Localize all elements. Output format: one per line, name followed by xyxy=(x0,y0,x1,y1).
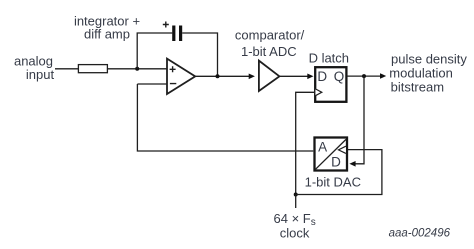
arrowhead to bitstream output xyxy=(380,73,386,79)
capacitor C1 (integrator feedback) with + polarity mark xyxy=(163,22,182,42)
svg-text:D: D xyxy=(317,69,327,84)
svg-text:D latch: D latch xyxy=(309,50,349,65)
wire: D latch Q output xyxy=(347,75,381,77)
wire: clock stub down to clock label xyxy=(295,195,297,209)
wire: feedback loop left vertical and top to capacitor xyxy=(137,33,172,69)
comparator U2 (1-bit ADC) xyxy=(259,61,280,91)
arrowhead into DAC D input (pointing left) xyxy=(349,161,355,167)
svg-text:bitstream: bitstream xyxy=(391,80,444,95)
wire: capacitor to op-amp output junction xyxy=(182,33,217,76)
node: op-amp output junction xyxy=(216,74,220,78)
wire: feedback from DAC output to inverting input xyxy=(137,84,313,151)
svg-text:Q: Q xyxy=(334,69,345,84)
label: comparator / 1-bit ADC xyxy=(235,28,305,59)
svg-text:aaa-002496: aaa-002496 xyxy=(389,228,451,240)
wire: resistor to op-amp non-inverting input xyxy=(107,68,167,70)
node: integrator input junction xyxy=(135,67,139,71)
wire: clock to D latch clock input xyxy=(296,92,315,194)
wire: comparator output to D latch xyxy=(279,75,308,77)
wire: op-amp output to comparator xyxy=(195,75,250,77)
label: analog input xyxy=(14,54,55,83)
node: Q output junction xyxy=(362,74,366,78)
wire: Q output down to 1-bit DAC digital input xyxy=(353,76,364,164)
clock marker on DAC (right edge, pointing left) xyxy=(339,146,346,153)
wire: clock to DAC clock input (around right side) xyxy=(296,150,382,195)
svg-text:input: input xyxy=(26,67,55,82)
svg-text:modulation: modulation xyxy=(389,66,453,81)
label: 64 x Fs clock xyxy=(274,211,316,241)
label: integrator + diff amp xyxy=(74,13,140,41)
svg-text:clock: clock xyxy=(280,226,310,241)
resistor R1 (input resistor) xyxy=(78,65,107,73)
D latch U3 xyxy=(315,67,346,102)
arrowhead into D latch xyxy=(307,74,313,80)
wire: analog input to resistor xyxy=(55,68,78,70)
node: clock junction xyxy=(294,193,298,197)
wire: op-amp inverting input from feedback xyxy=(137,83,167,85)
svg-text:comparator/: comparator/ xyxy=(235,28,305,43)
svg-text:1-bit ADC: 1-bit ADC xyxy=(241,44,297,59)
svg-text:1-bit DAC: 1-bit DAC xyxy=(305,174,361,189)
clock marker on D latch (left edge) xyxy=(315,89,321,96)
arrowhead into comparator xyxy=(249,74,255,80)
op-amp U1 (integrator + diff amp) xyxy=(167,59,195,94)
svg-text:A: A xyxy=(318,139,327,154)
svg-text:diff amp: diff amp xyxy=(84,26,130,41)
svg-text:pulse density: pulse density xyxy=(391,52,467,67)
label: pulse density modulation bitstream xyxy=(389,52,467,95)
svg-text:D: D xyxy=(331,155,341,170)
DAC U4 (1-bit DAC) xyxy=(315,138,348,171)
